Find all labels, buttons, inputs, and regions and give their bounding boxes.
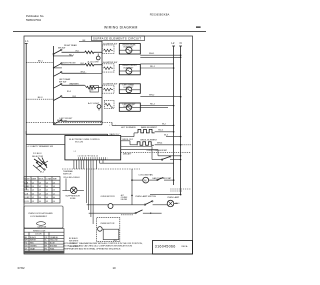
svg-text:THERMAL: THERMAL: [63, 170, 74, 173]
resistor warmer element row 4: [67, 85, 102, 93]
svg-text:YELLOW: YELLOW: [50, 240, 58, 242]
svg-text:10: 10: [113, 266, 117, 270]
svg-text:REV A: REV A: [182, 245, 189, 248]
svg-text:(NE) ATT: (NE) ATT: [123, 153, 132, 156]
svg-text:OR-3: OR-3: [72, 96, 76, 98]
wire element 3 to N: [140, 95, 181, 98]
svg-text:2-4: 2-4: [53, 201, 56, 203]
header page mark: [196, 26, 201, 28]
svg-text:RD-1: RD-1: [150, 66, 156, 68]
svg-text:FUSE: FUSE: [70, 198, 76, 200]
svg-text:RD-3: RD-3: [67, 91, 71, 93]
indicator light LF: [88, 102, 101, 110]
oven thermostat: [100, 147, 191, 164]
svg-text:DOOR CLOSED AND LATCHED. ALL C: DOOR CLOSED AND LATCHED. ALL COMPONENTS …: [63, 245, 132, 248]
wire N bus: [180, 49, 182, 195]
svg-text:RD-5: RD-5: [158, 130, 164, 132]
svg-text:2-4: 2-4: [39, 197, 42, 199]
svg-text:RIGHT FRONT: RIGHT FRONT: [62, 63, 77, 65]
limiter dashed box row 3: [102, 83, 117, 94]
svg-text:BK BLACK: BK BLACK: [69, 237, 79, 240]
element box right rear: [119, 43, 140, 54]
surface switch row 3: [54, 71, 103, 76]
oven lamp: [167, 200, 179, 207]
wire EOC aux pins: [121, 147, 158, 150]
svg-text:SURFACE ELEMENTS CIRCUIT: SURFACE ELEMENTS CIRCUIT: [93, 37, 141, 41]
svg-text:OVEN THERMOSTAT: OVEN THERMOSTAT: [147, 149, 168, 152]
svg-text:YL: YL: [45, 240, 47, 242]
svg-text:L 1: L 1: [74, 151, 76, 153]
svg-text:ELECTRONIC OVEN CONTROL: ELECTRONIC OVEN CONTROL: [69, 139, 100, 141]
svg-text:1-4: 1-4: [39, 201, 42, 203]
wire row B dashed: [89, 213, 152, 215]
svg-text:OVEN LAMP: OVEN LAMP: [167, 196, 180, 199]
wire surface feed bus: [53, 46, 55, 125]
wire dashed L1 tap BK-3: [26, 97, 53, 99]
svg-text:L2: L2: [171, 41, 174, 45]
svg-text:2-3: 2-3: [53, 182, 56, 184]
svg-text:ORANGE: ORANGE: [50, 236, 59, 239]
svg-text:CLEAN: CLEAN: [46, 178, 52, 181]
svg-text:BK-5: BK-5: [40, 172, 44, 174]
svg-text:2-3: 2-3: [39, 190, 42, 192]
svg-text:OVEN MOTOR: OVEN MOTOR: [100, 223, 115, 225]
element box left rear: [119, 84, 140, 94]
wire dashed lower feed: [26, 120, 174, 126]
svg-text:BLUE: BLUE: [50, 243, 55, 245]
svg-text:07/02: 07/02: [18, 266, 25, 270]
svg-text:1-2: 1-2: [53, 193, 56, 195]
wire element 4 to L2: [140, 104, 174, 108]
EOC pin row: [78, 156, 108, 159]
svg-text:1-3: 1-3: [39, 193, 42, 195]
EOC electronic oven control box: [65, 136, 121, 160]
svg-text:LATCH SW: LATCH SW: [38, 226, 47, 229]
wire surface section bottom: [54, 124, 103, 126]
wire EOC bake relay: [110, 133, 139, 137]
surface switch row 2 right front: [54, 63, 85, 68]
selector switch chart table: [24, 177, 60, 204]
resistor surface element row 2: [85, 63, 102, 66]
svg-text:BK-7: BK-7: [114, 240, 118, 242]
svg-text:2-3: 2-3: [32, 201, 35, 203]
svg-text:2-4: 2-4: [32, 186, 35, 188]
oven lamp switch row: [87, 194, 180, 209]
lower oven motor box: [97, 217, 120, 242]
door lock box: [24, 206, 63, 229]
svg-text:3-4: 3-4: [32, 193, 35, 195]
note text: [63, 242, 143, 250]
svg-text:L 1: L 1: [25, 39, 29, 43]
svg-text:1-3: 1-3: [53, 186, 56, 188]
wire dashed L1 tap BK-1: [26, 60, 53, 62]
svg-text:2-4: 2-4: [53, 190, 56, 192]
banner SURFACE ELEMENTS CIRCUIT: [92, 36, 145, 41]
svg-text:DE-REF: DE-REF: [121, 199, 127, 201]
svg-text:NOTE: CIRCUIT DIAGRAM SHOWN WI: NOTE: CIRCUIT DIAGRAM SHOWN WITH ALL CON…: [63, 242, 143, 245]
wire dashed separator: [62, 168, 140, 170]
surface switch row 5: [54, 96, 103, 101]
wire dashed near border: [170, 189, 191, 191]
wire EOC left L1: [26, 144, 65, 146]
wire sensor tap: [166, 136, 181, 138]
svg-text:WH-4: WH-4: [157, 143, 163, 145]
svg-text:BK-1: BK-1: [38, 60, 43, 62]
svg-text:OR-2: OR-2: [80, 63, 84, 65]
svg-text:WARMER: WARMER: [69, 83, 79, 86]
svg-text:COOLING FAN: COOLING FAN: [138, 173, 153, 176]
svg-text:3-4: 3-4: [53, 197, 56, 199]
svg-text:2-3: 2-3: [46, 193, 49, 195]
wire EOC broil relay: [121, 139, 138, 145]
wire element 2 to L2: [140, 66, 174, 69]
svg-text:1-2: 1-2: [32, 197, 35, 199]
svg-text:TEMPERATURE AND IN NORMAL OPER: TEMPERATURE AND IN NORMAL OPERATING SEQU…: [63, 247, 121, 250]
wire L1 bus: [25, 48, 27, 191]
wire row 1 tap: [53, 54, 75, 56]
title block: [153, 241, 193, 255]
terminal N: [179, 41, 182, 48]
svg-text:OVEN DOOR LATCH AND: OVEN DOOR LATCH AND: [28, 212, 53, 215]
legend text: [69, 237, 79, 248]
svg-text:+: +: [109, 125, 111, 127]
svg-text:OVEN MOTOR: OVEN MOTOR: [101, 196, 116, 198]
wire L1 feed to EOC: [26, 131, 108, 136]
svg-text:RIGHT REAR: RIGHT REAR: [64, 44, 77, 47]
svg-text:1-2: 1-2: [39, 186, 42, 188]
svg-text:BAKE RLY: BAKE RLY: [110, 133, 121, 136]
svg-text:1-4: 1-4: [32, 190, 35, 192]
surface switch row 6 left front: [54, 118, 103, 124]
svg-text:3-4: 3-4: [46, 186, 49, 188]
svg-text:WH-2: WH-2: [149, 95, 155, 97]
svg-text:P-1 BK-3: P-1 BK-3: [33, 153, 42, 155]
svg-text:1-4: 1-4: [46, 182, 49, 184]
wire element 1 to N: [140, 53, 181, 56]
thermal switch label: [63, 170, 74, 176]
wire row 2 tap: [53, 67, 62, 68]
svg-text:L1-CL: L1-CL: [25, 190, 30, 192]
terminal L2: [171, 41, 175, 48]
wire top L2/N taps: [140, 57, 181, 64]
wire top feed: [79, 40, 102, 42]
element box right front: [119, 64, 140, 74]
svg-text:N: N: [180, 41, 182, 45]
svg-text:SW: SW: [91, 90, 94, 92]
svg-text:BROIL ELEMENT: BROIL ELEMENT: [141, 139, 158, 141]
svg-text:RD-2: RD-2: [150, 104, 156, 106]
svg-text:Publication No.: Publication No.: [26, 14, 44, 18]
node hot surface plus marks: [109, 125, 136, 129]
svg-text:L2-CL: L2-CL: [25, 201, 30, 203]
svg-text:WHITE: WHITE: [30, 240, 37, 242]
svg-text:BAKE ELEMENT: BAKE ELEMENT: [141, 126, 158, 129]
oven selector switch cluster: [27, 145, 53, 174]
svg-text:OVEN LAMP SWITCH: OVEN LAMP SWITCH: [135, 195, 156, 198]
wire L2 bus: [173, 49, 175, 186]
nomenclature table: [24, 229, 64, 254]
svg-text:WH-1: WH-1: [149, 53, 155, 55]
svg-text:OR-1: OR-1: [75, 51, 79, 53]
limiter dashed box row 1: [102, 43, 117, 54]
header rule: [13, 31, 206, 33]
header publication number: [26, 14, 44, 22]
svg-text:1-2: 1-2: [32, 182, 35, 184]
svg-text:BLACK: BLACK: [30, 236, 37, 239]
svg-text:BK-3: BK-3: [38, 97, 43, 99]
svg-text:HOT SURFACE: HOT SURFACE: [121, 126, 136, 129]
svg-text:L2-BR: L2-BR: [25, 197, 31, 199]
svg-text:1-4: 1-4: [46, 197, 49, 199]
svg-text:MODE: MODE: [25, 179, 31, 181]
svg-text:WH-3: WH-3: [81, 72, 85, 74]
bake element: [138, 126, 174, 133]
terminal L1: [25, 39, 29, 48]
svg-text:1-3: 1-3: [39, 182, 42, 184]
svg-text:5995317504: 5995317504: [26, 18, 41, 22]
svg-text:316045066: 316045066: [155, 244, 176, 248]
svg-text:SWITCH: SWITCH: [63, 173, 72, 175]
wire element return bus: [101, 41, 103, 125]
surface switch row 1 right rear: [53, 44, 85, 54]
svg-text:M: M: [144, 179, 146, 183]
svg-text:FES365BGKBA: FES365BGKBA: [150, 14, 170, 17]
svg-text:A-12 LIGHT: A-12 LIGHT: [88, 61, 100, 64]
svg-text:1-2: 1-2: [46, 190, 49, 192]
svg-text:LOCK ASSEMBLY: LOCK ASSEMBLY: [30, 215, 48, 218]
resistor surface element row 1: [85, 51, 102, 54]
svg-text:BROWN: BROWN: [50, 246, 58, 248]
svg-text:L1-BR: L1-BR: [25, 186, 31, 188]
svg-text:FAN THERMOSTAT: FAN THERMOSTAT: [153, 177, 172, 180]
svg-text:BROIL: BROIL: [39, 179, 44, 181]
limiter dashed box row 2: [102, 61, 117, 72]
svg-text:INF SW: INF SW: [59, 81, 66, 83]
svg-text:+ L1 CAVITY BREAKER SW: + L1 CAVITY BREAKER SW: [27, 145, 53, 148]
cooling fan motor: [131, 169, 174, 205]
oven lamp switch 2: [135, 210, 162, 214]
diagram frame: [24, 36, 193, 254]
EOC pin drop wires: [74, 160, 103, 224]
wire EOC to oven circuits: [100, 153, 133, 164]
svg-text:GREEN: GREEN: [30, 246, 37, 248]
svg-text:WIRING DIAGRAM: WIRING DIAGRAM: [104, 26, 138, 30]
element box left front: [119, 103, 140, 111]
indicator light RR: [88, 54, 101, 64]
svg-text:1-3: 1-3: [46, 201, 49, 203]
svg-text:WH-9: WH-9: [175, 203, 179, 205]
surface switch row 4 left rear warmer: [54, 78, 85, 88]
INF SW box: [90, 85, 98, 92]
svg-text:GRAY: GRAY: [30, 247, 36, 250]
svg-text:EOC (P): EOC (P): [75, 142, 83, 144]
svg-text:A-12 LIGHT: A-12 LIGHT: [88, 102, 100, 105]
suppressor fuse: [62, 177, 84, 200]
broil element: [137, 139, 191, 145]
limiter dashed box row 4: [104, 100, 114, 108]
